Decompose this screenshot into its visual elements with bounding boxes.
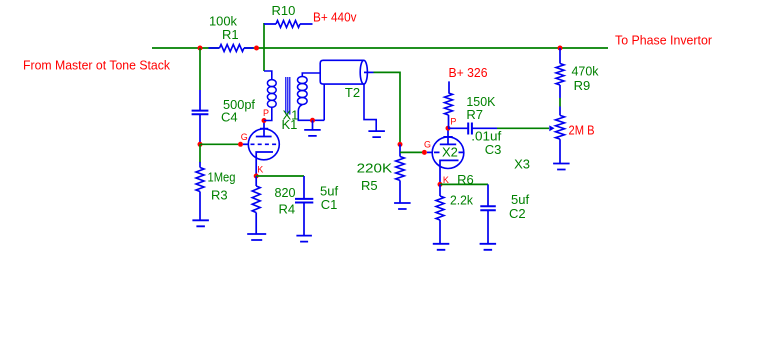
svg-text:5uf: 5uf — [511, 192, 529, 207]
label X3 — [514, 157, 530, 172]
node junction C4 / R3 / grid wire — [198, 142, 203, 147]
inductor transformer primary winding — [267, 80, 276, 108]
label P (X1 plate) — [263, 108, 269, 118]
tube X1 plate lead and plate — [256, 121, 272, 137]
label 100k (R1 value) — [209, 14, 237, 29]
svg-text:470k: 470k — [572, 63, 599, 78]
label T2 — [345, 85, 360, 100]
node junction T2 output / R5 / X2 grid — [398, 142, 403, 147]
label K (X1 cathode) — [257, 165, 263, 175]
label R4 — [279, 202, 296, 217]
resistor R4 — [252, 176, 260, 234]
svg-text:X3: X3 — [514, 157, 530, 172]
resistor R9 — [556, 48, 564, 98]
label 500pf (C4 value) — [223, 97, 255, 112]
tube X1 grid (dashed) and grid lead — [243, 143, 278, 145]
label R10 — [272, 3, 296, 18]
svg-text:From Master ot Tone Stack: From Master ot Tone Stack — [23, 58, 170, 73]
svg-text:820: 820 — [275, 185, 296, 200]
svg-text:K1: K1 — [282, 117, 298, 132]
label G (X1 grid) — [241, 132, 248, 142]
ground R3 — [192, 220, 209, 226]
ground R5 — [394, 203, 411, 209]
wire T2 left bottom lead — [323, 84, 325, 120]
svg-text:R3: R3 — [211, 187, 228, 202]
ground R6 — [433, 244, 450, 250]
label R7 — [466, 107, 483, 122]
tube T2 envelope — [320, 60, 367, 84]
node P plate pin X2 — [446, 126, 451, 131]
svg-text:B+ 326: B+ 326 — [449, 65, 488, 80]
node K cathode pin X2 — [438, 182, 443, 187]
ground T2 — [368, 131, 385, 137]
wire T2 output lead — [364, 71, 374, 73]
wire secondary junction to ground — [312, 120, 314, 129]
svg-text:To Phase Invertor: To Phase Invertor — [615, 33, 713, 48]
tube X2 plate lead and plate — [440, 129, 456, 145]
svg-text:C4: C4 — [221, 109, 238, 124]
node P plate pin X1 — [262, 118, 267, 123]
svg-text:2M B: 2M B — [569, 123, 595, 138]
wire grid of X1 — [200, 143, 238, 145]
svg-text:1Meg: 1Meg — [208, 170, 236, 185]
label 150K (value) — [466, 94, 495, 109]
transformer K1 core — [286, 77, 290, 115]
node junction main bus / R9 branch — [558, 46, 563, 51]
tube X2 cathode — [440, 160, 459, 184]
svg-text:R9: R9 — [574, 78, 591, 93]
svg-text:R5: R5 — [361, 178, 378, 193]
label B+ 326 — [449, 65, 488, 80]
label P (X2 plate) — [450, 117, 456, 127]
resistor R1 — [209, 45, 254, 52]
wire T2 output to X2 stage — [374, 72, 401, 144]
label 220K (R5 value) — [357, 160, 393, 175]
svg-text:P: P — [450, 117, 456, 127]
svg-text:220K: 220K — [357, 160, 393, 175]
label R3 — [211, 187, 228, 202]
svg-text:G: G — [241, 132, 248, 142]
svg-text:2.2k: 2.2k — [450, 193, 473, 208]
resistor R (150K plate load) — [445, 81, 453, 127]
label C2 — [509, 206, 526, 221]
wire B+ drop to transformer primary — [263, 23, 265, 71]
label X1 (transformer) — [283, 108, 299, 123]
wire R9 to pot — [559, 98, 561, 107]
svg-text:P: P — [263, 108, 269, 118]
wire C4 junction to R3 — [199, 144, 201, 162]
ground pot — [553, 164, 570, 170]
wire X2 grid — [400, 151, 423, 153]
node junction R1 right lead — [254, 46, 259, 51]
tube X2 envelope — [432, 137, 464, 169]
label K1 (transformer) — [282, 117, 298, 132]
label X2 (inside tube) — [442, 145, 458, 160]
label 1Meg (R3 value) — [208, 170, 236, 185]
ground C1 — [296, 236, 312, 242]
wire transformer secondary top lead — [302, 73, 320, 77]
svg-text:T2: T2 — [345, 85, 360, 100]
svg-text:R10: R10 — [272, 3, 296, 18]
label .01uf (C3 value) — [471, 128, 501, 143]
svg-text:R1: R1 — [222, 27, 239, 42]
tube X1 cathode — [256, 152, 273, 176]
label G (X2 grid) — [424, 139, 431, 149]
label 5uf (C1 value) — [320, 183, 338, 198]
svg-text:K: K — [443, 175, 449, 185]
svg-text:G: G — [424, 139, 431, 149]
wire main signal bus (tone stack to phase invertor) — [152, 47, 608, 49]
tube X2 grid lead and dashes — [427, 151, 463, 153]
svg-text:.01uf: .01uf — [471, 128, 501, 143]
wire T2 right bottom lead — [364, 84, 376, 131]
wire transformer secondary bottom lead — [298, 105, 324, 121]
svg-text:C2: C2 — [509, 206, 526, 221]
capacitor C1 — [295, 176, 313, 235]
resistor R10 — [264, 21, 313, 28]
label B+ 440v — [313, 9, 357, 24]
wire X1 cathode to C1 — [256, 175, 304, 177]
label 2.2k (R6 value) — [450, 193, 473, 208]
label 5uf (C2 value) — [511, 192, 529, 207]
svg-text:K: K — [257, 165, 263, 175]
label 470k (R9 value) — [572, 63, 599, 78]
label 2M B — [569, 123, 595, 138]
svg-text:R4: R4 — [279, 202, 296, 217]
inductor transformer secondary winding — [298, 77, 308, 105]
svg-text:R6: R6 — [457, 172, 474, 187]
resistor R6 — [436, 184, 444, 243]
resistor R5 — [396, 157, 405, 203]
label R5 — [361, 178, 378, 193]
wire main bus to C4 — [199, 48, 201, 90]
node K cathode pin X1 — [254, 174, 259, 179]
capacitor C4 — [192, 90, 209, 142]
label K (X2 cathode) — [443, 175, 449, 185]
ground C2 — [480, 244, 497, 250]
capacitor C2 — [480, 184, 496, 243]
wire junction to R5 — [399, 144, 401, 156]
label From Master ot Tone Stack — [23, 58, 170, 73]
label R6 — [457, 172, 474, 187]
label C4 — [221, 109, 238, 124]
label C1 — [321, 197, 338, 212]
node G grid pin X2 — [422, 150, 427, 155]
wire transformer primary top lead — [264, 71, 272, 80]
node junction main bus / C4 branch — [198, 46, 203, 51]
label R9 — [574, 78, 591, 93]
capacitor C3 with leads — [448, 123, 497, 135]
resistor R3 — [196, 162, 204, 220]
node G grid pin X1 — [238, 142, 243, 147]
ground transformer secondary — [304, 130, 321, 136]
svg-text:X2: X2 — [442, 145, 458, 160]
label C3 — [485, 142, 502, 157]
wire C3 to volume pot — [497, 127, 549, 129]
wiper arrow into pot — [549, 125, 554, 131]
svg-text:R7: R7 — [466, 107, 483, 122]
label 820 (R4 value) — [275, 185, 296, 200]
wire transformer primary bottom lead — [264, 107, 272, 120]
svg-text:B+ 440v: B+ 440v — [313, 9, 357, 24]
svg-text:C3: C3 — [485, 142, 502, 157]
ground R4 — [247, 234, 266, 240]
potentiometer 2M B — [556, 107, 565, 164]
label R1 — [222, 27, 239, 42]
label To Phase Invertor — [615, 33, 713, 48]
svg-text:C1: C1 — [321, 197, 338, 212]
wire X2 cathode to C2 — [440, 183, 488, 185]
tube X1 envelope — [248, 129, 279, 160]
node junction secondary / T2 ground return — [310, 118, 315, 123]
